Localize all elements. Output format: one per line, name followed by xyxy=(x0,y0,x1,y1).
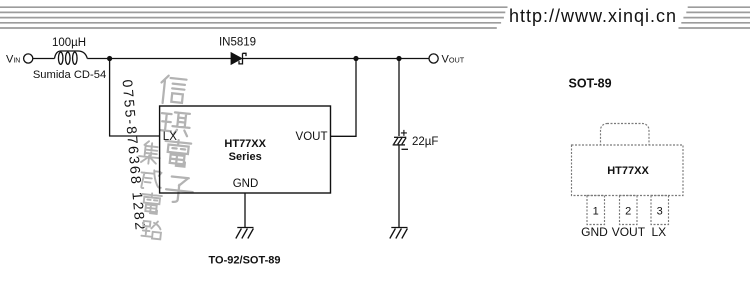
watermark char cheng xyxy=(140,169,163,190)
watermark char qi xyxy=(160,111,191,136)
svg-text:http://www.xinqi.cn: http://www.xinqi.cn xyxy=(509,6,677,26)
watermark char lu xyxy=(141,220,162,239)
pin 2 xyxy=(620,196,638,225)
watermark char zi xyxy=(165,176,194,204)
junction A xyxy=(107,56,112,61)
svg-text:HT77XX: HT77XX xyxy=(607,165,649,177)
op IC U1 HT77XX box xyxy=(160,106,331,193)
terminal VOUT xyxy=(429,54,438,63)
svg-text:22µF: 22µF xyxy=(412,136,438,148)
ground under capacitor xyxy=(390,228,408,239)
svg-text:LX: LX xyxy=(651,225,666,239)
svg-text:HT77XX: HT77XX xyxy=(224,138,266,150)
watermark phone number 0755-876368 1282 xyxy=(120,79,149,233)
wire VIN to inductor xyxy=(33,58,55,60)
minus sign xyxy=(402,148,409,150)
svg-text:VIN: VIN xyxy=(6,53,20,65)
ground under IC xyxy=(236,228,254,239)
svg-text:100µH: 100µH xyxy=(52,37,86,49)
package body xyxy=(572,145,684,196)
wire C down to capacitor xyxy=(398,59,400,137)
junction C xyxy=(396,56,401,61)
svg-text:1: 1 xyxy=(593,206,599,218)
svg-text:2: 2 xyxy=(625,206,631,218)
svg-text:LX: LX xyxy=(163,131,177,143)
wire B down to VOUT pin xyxy=(331,59,357,137)
package tab xyxy=(601,124,650,152)
watermark char dian2 xyxy=(140,192,162,214)
inductor L1 100uH xyxy=(55,51,88,64)
watermark char ji2 xyxy=(138,140,161,164)
plus sign xyxy=(401,130,407,136)
svg-text:Sumida CD-54: Sumida CD-54 xyxy=(33,69,106,81)
svg-text:VOUT: VOUT xyxy=(442,53,465,65)
top hatch right group xyxy=(679,7,750,28)
wire capacitor to ground xyxy=(398,145,400,228)
diode IN5819 xyxy=(231,53,242,65)
top hatch left group xyxy=(0,7,508,28)
svg-text:IN5819: IN5819 xyxy=(219,37,256,49)
svg-text:3: 3 xyxy=(657,206,663,218)
svg-text:GND: GND xyxy=(233,178,259,190)
pin 1 xyxy=(587,196,605,225)
svg-text:VOUT: VOUT xyxy=(612,225,646,239)
wire A down to LX xyxy=(110,59,160,137)
main rail wire xyxy=(87,58,231,60)
svg-text:Series: Series xyxy=(229,151,262,163)
capacitor C1 22uF xyxy=(393,137,407,145)
watermark char xin xyxy=(159,75,186,105)
pin 3 xyxy=(651,196,669,225)
svg-text:GND: GND xyxy=(581,225,608,239)
wire GND pin down xyxy=(244,193,246,228)
terminal VIN xyxy=(24,54,33,63)
svg-text:SOT-89: SOT-89 xyxy=(569,77,612,91)
svg-text:VOUT: VOUT xyxy=(296,131,328,143)
watermark char dian xyxy=(163,139,191,167)
svg-text:TO-92/SOT-89: TO-92/SOT-89 xyxy=(209,255,281,267)
junction B xyxy=(353,56,358,61)
